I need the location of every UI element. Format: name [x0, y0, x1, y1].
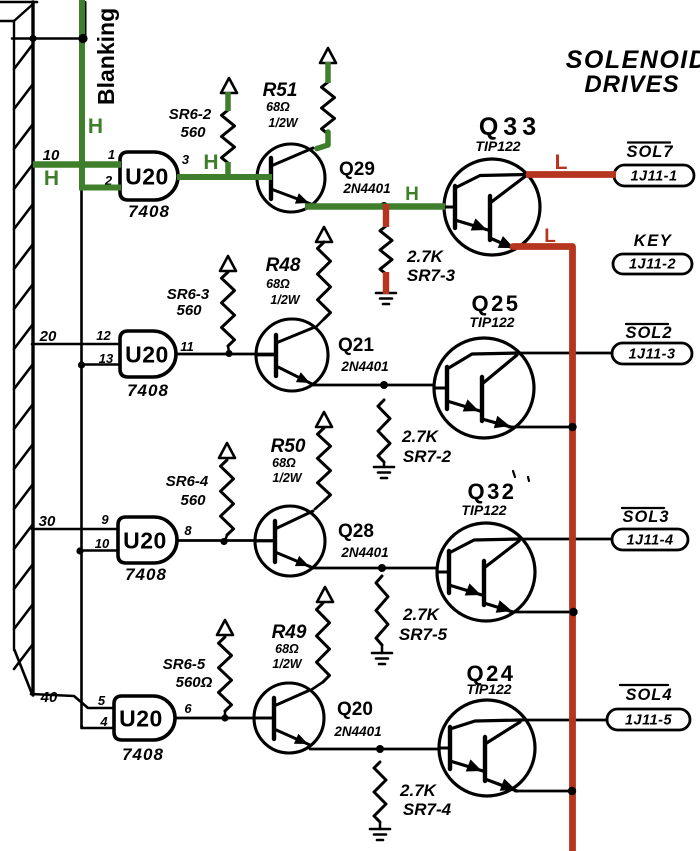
label 560 (SR6-2): [180, 124, 206, 141]
wire input 20 to U20b pin12: [32, 343, 120, 346]
svg-text:U20: U20: [123, 528, 167, 554]
label TIP122 (Q32): [461, 502, 506, 518]
AND gate U20a 7408: [120, 152, 178, 200]
label Q29: [339, 159, 375, 180]
svg-text:U20: U20: [125, 164, 169, 190]
wire bus elbow to U20d pin4: [82, 726, 115, 728]
stray tick marks above Q32: [513, 471, 529, 481]
label R49: [272, 622, 307, 643]
green trace Q29 emitter to Q33 base: [305, 203, 445, 210]
node Q32 emitter / bus: [569, 608, 577, 616]
node bus/pin10: [76, 547, 83, 554]
title SOLENOID: [566, 46, 700, 74]
AND gate U20d 7408: [114, 696, 175, 740]
wire Q28 emitter to Q32 base: [311, 567, 437, 570]
AND gate U20c 7408: [118, 517, 177, 563]
label Q24: [466, 661, 515, 686]
svg-text:SOL7: SOL7: [626, 143, 673, 161]
label 560 (SR6-3): [176, 302, 202, 319]
node SR7-2 tap: [380, 381, 388, 389]
label 2N4401 (Q20): [333, 724, 381, 739]
svg-text:2N4401: 2N4401: [342, 181, 390, 196]
pin 2: [104, 173, 113, 188]
transistor Q28 2N4401: [255, 506, 325, 576]
black edge of blanking line under green: [85, 2, 87, 36]
green stub R51 top: [325, 62, 331, 83]
pin 4: [99, 714, 108, 729]
resistor R48 68ohm: [316, 242, 331, 327]
svg-text:SR6-5: SR6-5: [163, 656, 206, 673]
label R50: [271, 436, 306, 457]
pin 13: [99, 351, 114, 366]
label SOL4 overbar: [620, 685, 673, 704]
node SR7-5 tap: [378, 564, 386, 572]
label SOL7 overbar: [626, 143, 673, 162]
green stub SR6-2 bottom: [225, 162, 231, 179]
AND gate U20b 7408: [120, 331, 176, 377]
label SR6-3: [167, 286, 210, 303]
svg-text:TIP122: TIP122: [466, 681, 511, 697]
svg-text:R49: R49: [272, 622, 307, 643]
connector pill 1J11-3 (SOL2): [612, 343, 692, 364]
+V arrow R50: [316, 412, 332, 427]
label SOL2 overbar: [625, 324, 672, 342]
svg-text:Q25: Q25: [471, 291, 520, 316]
label Q33: [479, 113, 541, 141]
wire Q24 emitter to bus: [515, 790, 572, 793]
svg-text:1J11-1: 1J11-1: [630, 169, 677, 185]
svg-text:SR7-3: SR7-3: [407, 266, 456, 285]
edge connector 1J (hatched bus strip): [0, 2, 37, 695]
wire input 30 to U20c pin9: [32, 528, 118, 531]
red trace Q33 emitter bus: [513, 247, 573, 851]
svg-text:2.7K: 2.7K: [399, 781, 438, 800]
wire Q24 collector to 1J11-5: [520, 719, 607, 722]
svg-text:2N4401: 2N4401: [340, 545, 388, 560]
wire bus to U20b pin13: [82, 363, 121, 366]
resistor R51 68ohm: [322, 82, 335, 134]
svg-text:68Ω: 68Ω: [266, 100, 290, 114]
pin 10: [95, 536, 110, 551]
wire Q32 emitter to bus: [511, 611, 574, 614]
ground SR7-3: [376, 293, 396, 304]
label 1/2W (R49): [272, 657, 302, 671]
pin 9: [101, 512, 109, 527]
svg-text:7408: 7408: [125, 565, 167, 584]
svg-text:1J11-5: 1J11-5: [625, 713, 673, 729]
+V arrow SR6-5: [217, 620, 233, 635]
svg-text:H: H: [44, 167, 59, 190]
svg-text:KEY: KEY: [634, 232, 673, 250]
label SR7-3: [407, 266, 456, 285]
svg-text:7408: 7408: [128, 202, 170, 221]
svg-text:TIP122: TIP122: [475, 138, 520, 154]
label 7408 (U20d): [122, 745, 164, 764]
svg-text:68Ω: 68Ω: [272, 456, 296, 470]
svg-text:R48: R48: [266, 255, 301, 276]
svg-text:2.7K: 2.7K: [401, 427, 440, 446]
ground SR7-5: [372, 653, 392, 664]
transistor Q29 2N4401: [257, 144, 325, 212]
svg-text:TIP122: TIP122: [469, 314, 514, 330]
svg-text:68Ω: 68Ω: [266, 277, 290, 291]
connector pill 1J11-2 (KEY): [613, 254, 692, 274]
node SR6-4 / pin8 wire: [220, 538, 227, 545]
wire U20d pin6 to Q20 base: [175, 717, 274, 720]
svg-text:SOL3: SOL3: [622, 508, 669, 526]
label SR6-5: [163, 656, 206, 673]
label 7408 (U20c): [125, 565, 167, 584]
svg-text:8: 8: [184, 523, 192, 538]
svg-text:6: 6: [184, 701, 192, 716]
svg-text:4: 4: [99, 714, 108, 729]
svg-text:30: 30: [39, 513, 56, 530]
node SR7-3 tap: [380, 202, 388, 210]
node Q24 emitter / bus: [568, 787, 576, 795]
svg-text:R51: R51: [263, 80, 298, 101]
svg-text:20: 20: [39, 328, 57, 345]
resistor SR7-5 2.7K: [376, 576, 388, 653]
svg-text:11: 11: [180, 339, 194, 354]
transistor Q21 2N4401: [256, 319, 328, 391]
label 2N4401 (Q28): [340, 545, 388, 560]
resistor R50 68ohm: [315, 428, 331, 509]
node Q25 emitter / bus: [568, 423, 576, 431]
connector pill 1J11-4 (SOL3): [612, 529, 688, 550]
svg-text:1J11-2: 1J11-2: [629, 257, 676, 273]
label Q28: [338, 521, 374, 542]
node SR6-3 / pin11 wire: [225, 350, 232, 357]
svg-text:Q32: Q32: [467, 479, 516, 504]
label 40: [40, 689, 58, 706]
svg-text:1J11-3: 1J11-3: [628, 347, 675, 363]
label 1/2W (R51): [268, 116, 298, 130]
pin 6: [184, 701, 192, 716]
label Blanking: [93, 8, 119, 105]
label SR6-2: [169, 106, 212, 123]
wire bus to U20c pin10: [80, 549, 118, 552]
+V arrow SR6-3: [220, 256, 236, 271]
svg-text:Q33: Q33: [479, 113, 541, 141]
svg-text:L: L: [555, 151, 568, 174]
svg-text:2.7K: 2.7K: [402, 605, 441, 624]
wire Q20 emitter to Q24 base: [310, 748, 439, 751]
label 68 (R50): [272, 456, 296, 470]
svg-text:5: 5: [98, 693, 106, 708]
resistor SR7-3 2.7K: [380, 226, 392, 274]
+V arrow R51: [320, 48, 336, 63]
red stub SR7-3 top: [383, 204, 389, 227]
svg-text:SOL2: SOL2: [625, 324, 672, 342]
transistor Q20 2N4401: [254, 683, 324, 753]
svg-text:SR7-5: SR7-5: [399, 625, 448, 644]
transistor Q25 TIP122: [434, 338, 534, 438]
label SR7-2: [403, 447, 452, 466]
resistor SR6-4 560: [221, 460, 234, 541]
pin 11: [180, 339, 194, 354]
svg-text:SOL4: SOL4: [625, 686, 672, 704]
label 7408 (U20a): [128, 202, 170, 221]
svg-text:2N4401: 2N4401: [340, 359, 388, 374]
label 2N4401 (Q29): [342, 181, 390, 196]
transistor Q33 TIP122: [444, 159, 540, 255]
wire input 40 to U20d pin5: [31, 694, 114, 708]
wire Q32 collector to 1J11-4: [519, 538, 612, 541]
wire Q21 emitter to Q25 base: [312, 384, 434, 387]
pin 8: [184, 523, 192, 538]
node SR7-4 tap: [376, 745, 384, 753]
svg-text:560: 560: [180, 492, 206, 509]
+V arrow R49: [317, 587, 333, 602]
svg-text:12: 12: [96, 328, 111, 343]
label 10: [43, 147, 60, 164]
label 30: [39, 513, 56, 530]
svg-text:560: 560: [176, 302, 202, 319]
red stub SR7-3 bottom: [383, 272, 389, 294]
svg-text:560Ω: 560Ω: [176, 674, 213, 691]
label 68 (R49): [275, 642, 299, 656]
svg-text:TIP122: TIP122: [461, 502, 506, 518]
svg-text:H: H: [203, 151, 218, 174]
transistor Q24 TIP122: [439, 700, 535, 796]
label SR6-4: [166, 473, 209, 490]
svg-text:68Ω: 68Ω: [275, 642, 299, 656]
label 68 (R48): [266, 277, 290, 291]
label H blanking: [88, 115, 103, 138]
svg-text:7408: 7408: [127, 381, 169, 400]
svg-text:560: 560: [180, 124, 206, 141]
+V arrow SR6-2: [221, 78, 237, 93]
ground SR7-4: [370, 829, 390, 840]
pin 5: [98, 693, 106, 708]
+V arrow SR6-4: [219, 443, 235, 458]
resistor SR7-2 2.7K: [378, 400, 390, 467]
green stub SR6-2 top: [225, 92, 231, 111]
pin 3: [182, 152, 190, 167]
pin 12: [96, 328, 111, 343]
node at inner strip / top link: [29, 35, 36, 42]
label 1/2W (R48): [270, 293, 300, 307]
title DRIVES: [584, 71, 679, 98]
ground SR7-2: [374, 467, 394, 478]
svg-text:Q29: Q29: [339, 159, 375, 180]
svg-text:7408: 7408: [122, 745, 164, 764]
label TIP122 (Q25): [469, 314, 514, 330]
svg-text:H: H: [405, 184, 419, 205]
label R51: [263, 80, 298, 101]
label 560 (SR6-5): [176, 674, 213, 691]
label 7408 (U20b): [127, 381, 169, 400]
svg-text:U20: U20: [119, 706, 163, 732]
connector pill 1J11-1 (SOL7): [614, 165, 694, 186]
svg-text:13: 13: [99, 351, 114, 366]
label 1/2W (R50): [272, 471, 302, 485]
svg-text:R50: R50: [271, 436, 306, 457]
svg-text:1: 1: [108, 147, 115, 162]
label H input: [44, 167, 59, 190]
connector pill 1J11-5 (SOL4): [607, 709, 690, 730]
svg-text:1/2W: 1/2W: [270, 293, 300, 307]
svg-text:10: 10: [95, 536, 110, 551]
wire Q25 emitter to bus: [509, 426, 572, 429]
resistor SR6-3 560: [222, 272, 235, 352]
svg-text:2N4401: 2N4401: [333, 724, 381, 739]
svg-text:SR7-4: SR7-4: [403, 800, 452, 819]
label 68 (R51): [266, 100, 290, 114]
label L collector: [555, 151, 568, 174]
svg-text:Q28: Q28: [338, 521, 374, 542]
green trace bus to pin2: [79, 185, 121, 191]
green elbow R51 to Q29 collector: [317, 132, 328, 149]
label H gate out: [203, 151, 218, 174]
resistor SR7-4 2.7K: [374, 762, 386, 829]
transistor Q32 TIP122: [437, 523, 535, 621]
label 20: [39, 328, 57, 345]
green trace pin3 to Q29 base: [177, 174, 272, 180]
svg-text:H: H: [88, 115, 103, 138]
red trace Q33 collector to 1J11-1: [526, 171, 616, 178]
svg-text:SR7-2: SR7-2: [403, 447, 452, 466]
resistor SR6-5 560: [219, 637, 232, 718]
pin 1: [108, 147, 115, 162]
svg-text:DRIVES: DRIVES: [584, 71, 679, 98]
wire blanking bus vertical: [80, 38, 83, 728]
label SR7-4: [403, 800, 452, 819]
svg-text:40: 40: [40, 689, 58, 706]
svg-text:Q21: Q21: [338, 335, 374, 356]
svg-text:SR6-4: SR6-4: [166, 473, 209, 490]
label TIP122 (Q33): [475, 138, 520, 154]
resistor R49 68ohm: [311, 603, 330, 690]
svg-text:Q20: Q20: [337, 699, 373, 720]
svg-text:SR6-3: SR6-3: [167, 286, 210, 303]
label Q32: [467, 479, 516, 504]
svg-text:SOLENOID: SOLENOID: [566, 46, 700, 74]
+V arrow R48: [316, 227, 332, 242]
node SR6-5 / pin6 wire: [221, 714, 228, 721]
label SOL3 overbar: [622, 508, 670, 526]
svg-text:9: 9: [101, 512, 109, 527]
label 2.7K (SR7-2): [401, 427, 440, 446]
label Q21: [338, 335, 374, 356]
label 560 (SR6-4): [180, 492, 206, 509]
label 2.7K (SR7-5): [402, 605, 441, 624]
label H emitter: [405, 184, 419, 205]
svg-text:SR6-2: SR6-2: [169, 106, 212, 123]
svg-text:L: L: [544, 226, 556, 247]
label L emitter: [544, 226, 556, 247]
svg-text:Blanking: Blanking: [93, 8, 119, 105]
label Q25: [471, 291, 520, 316]
svg-text:1/2W: 1/2W: [272, 471, 302, 485]
label R48: [266, 255, 301, 276]
label SR7-5: [399, 625, 448, 644]
label Q20: [337, 699, 373, 720]
node at bus / top link: [78, 34, 87, 43]
svg-text:U20: U20: [125, 342, 169, 368]
svg-text:1/2W: 1/2W: [272, 657, 302, 671]
svg-text:3: 3: [182, 152, 190, 167]
svg-text:1/2W: 1/2W: [268, 116, 298, 130]
wire U20c pin8 to Q28 base: [177, 539, 275, 542]
green trace input 10 to pin1: [33, 161, 121, 168]
wire U20b pin11 to Q21 base: [176, 353, 276, 356]
svg-text:2.7K: 2.7K: [406, 247, 445, 266]
resistor SR6-2 560: [222, 110, 235, 163]
wire connector-to-bus top link: [12, 37, 82, 40]
label KEY: [634, 232, 673, 250]
label 2N4401 (Q21): [340, 359, 388, 374]
wire Q25 collector to 1J11-3: [517, 352, 612, 355]
svg-text:1J11-4: 1J11-4: [626, 533, 673, 549]
green trace blanking vertical: [79, 0, 85, 189]
label TIP122 (Q24): [466, 681, 511, 697]
node bus/pin13: [78, 361, 85, 368]
label 2.7K (SR7-3): [406, 247, 445, 266]
label 2.7K (SR7-4): [399, 781, 438, 800]
